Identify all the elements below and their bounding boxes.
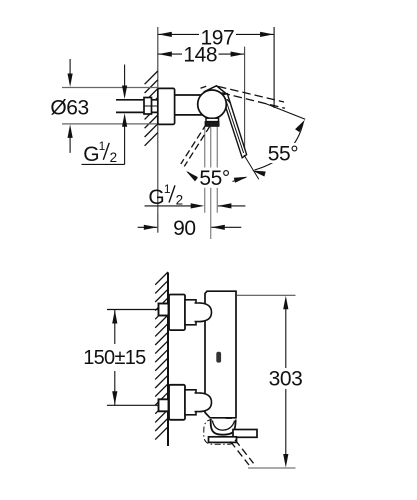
svg-text:G: G (148, 186, 164, 209)
svg-text:1: 1 (164, 182, 171, 196)
svg-text:55°: 55° (199, 167, 230, 190)
svg-text:Ø63: Ø63 (50, 96, 89, 119)
svg-text:2: 2 (110, 150, 118, 165)
svg-text:303: 303 (269, 367, 303, 390)
svg-text:150±15: 150±15 (83, 347, 146, 369)
svg-text:1: 1 (99, 139, 106, 153)
svg-text:55°: 55° (268, 143, 299, 166)
svg-text:148: 148 (183, 43, 217, 66)
svg-text:90: 90 (173, 217, 196, 240)
svg-text:G: G (83, 143, 99, 166)
svg-text:2: 2 (176, 193, 184, 208)
